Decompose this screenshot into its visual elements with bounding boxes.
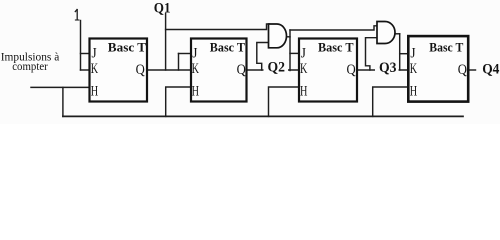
svg-text:J: J xyxy=(301,46,307,62)
svg-text:K: K xyxy=(410,61,418,77)
svg-text:Q2: Q2 xyxy=(268,60,286,76)
svg-text:J: J xyxy=(92,46,98,62)
svg-text:J: J xyxy=(192,46,198,62)
svg-text:Q: Q xyxy=(237,62,247,78)
svg-text:Q: Q xyxy=(347,62,357,78)
svg-text:Basc T: Basc T xyxy=(210,41,246,55)
svg-text:Q: Q xyxy=(458,62,468,78)
svg-text:J: J xyxy=(410,46,416,62)
svg-text:Basc T: Basc T xyxy=(318,41,354,55)
svg-text:Q: Q xyxy=(136,62,146,78)
svg-text:Q4: Q4 xyxy=(482,62,500,78)
svg-text:H: H xyxy=(91,84,99,100)
svg-text:K: K xyxy=(192,61,200,77)
svg-text:H: H xyxy=(300,84,308,100)
svg-text:compter: compter xyxy=(12,59,48,73)
svg-text:H: H xyxy=(192,84,200,100)
svg-text:Basc T: Basc T xyxy=(429,41,463,55)
svg-text:K: K xyxy=(300,61,308,77)
svg-text:Q3: Q3 xyxy=(379,60,397,76)
svg-text:Basc T: Basc T xyxy=(108,41,147,55)
svg-text:Q1: Q1 xyxy=(154,1,171,17)
svg-text:H: H xyxy=(410,84,418,100)
svg-text:K: K xyxy=(91,61,99,77)
